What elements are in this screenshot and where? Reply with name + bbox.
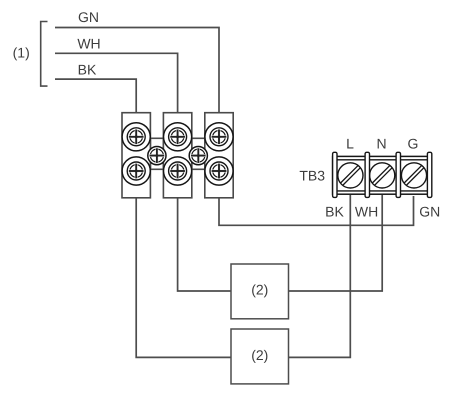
svg-text:(1): (1) bbox=[13, 45, 30, 61]
svg-text:GN: GN bbox=[419, 203, 440, 219]
svg-text:G: G bbox=[408, 135, 419, 151]
svg-text:GN: GN bbox=[78, 9, 99, 25]
svg-text:(2): (2) bbox=[251, 347, 268, 363]
svg-text:TB3: TB3 bbox=[299, 167, 325, 183]
svg-text:WH: WH bbox=[355, 203, 378, 219]
svg-text:(2): (2) bbox=[251, 282, 268, 298]
svg-text:N: N bbox=[376, 135, 386, 151]
svg-text:BK: BK bbox=[78, 62, 97, 78]
svg-text:L: L bbox=[346, 135, 354, 151]
svg-text:BK: BK bbox=[325, 203, 344, 219]
svg-text:WH: WH bbox=[77, 35, 100, 51]
